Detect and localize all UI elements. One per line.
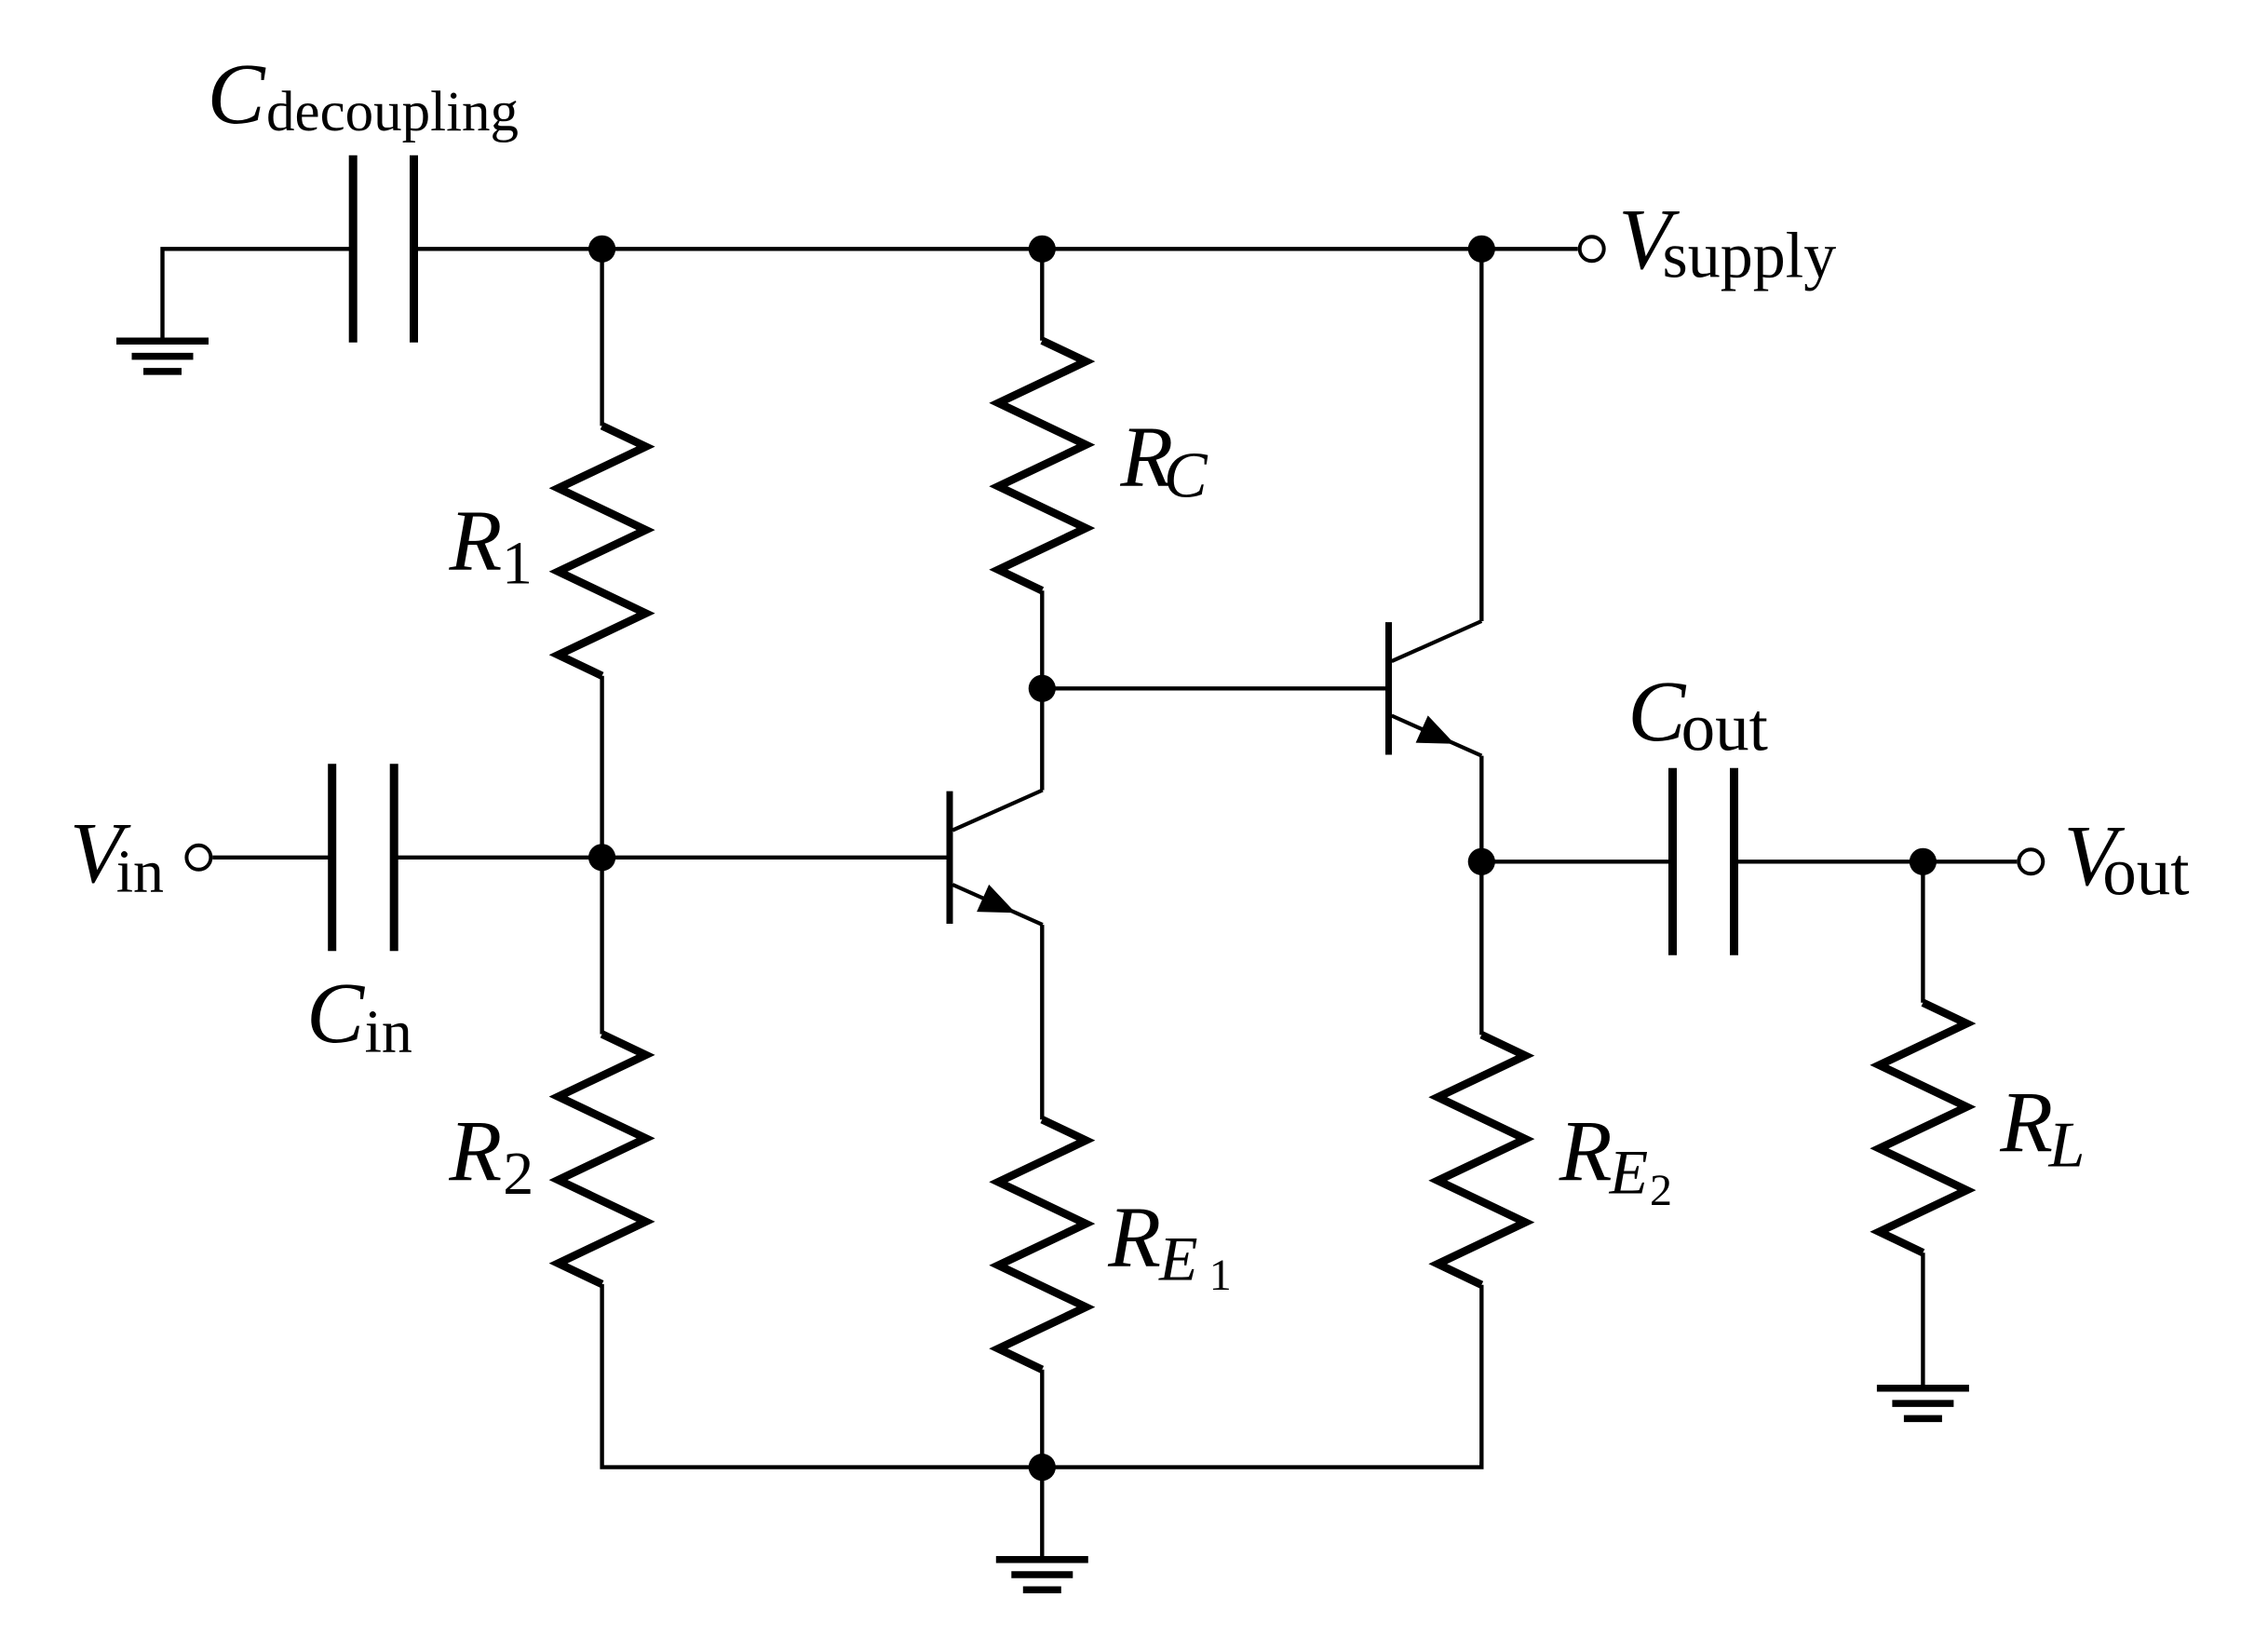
ground R_L — [1877, 1388, 1969, 1419]
wire Q2 collector lead — [1479, 249, 1483, 621]
svg-text:R: R — [1107, 1190, 1161, 1286]
wire R_L to ground — [1921, 1252, 1924, 1385]
transistor Q2 (NPN) — [1389, 621, 1482, 756]
node top rail / R_C — [1029, 236, 1056, 263]
svg-text:C: C — [1627, 664, 1686, 760]
wire R_E2 to bottom rail — [1479, 1285, 1483, 1468]
ground left — [116, 341, 209, 372]
wire rail to R1 — [600, 249, 603, 426]
svg-text:out: out — [1681, 690, 1768, 765]
wire emitter node to R_E2 — [1479, 861, 1483, 1035]
wire emitter node to C_out — [1481, 860, 1672, 863]
node base node Q1 — [588, 844, 615, 871]
wire Q1 emitter lead — [1040, 925, 1044, 1119]
wire top rail right segment — [1042, 247, 1481, 250]
node top rail / R1 — [588, 236, 615, 263]
svg-text:R: R — [1559, 1104, 1613, 1200]
svg-text:E: E — [1609, 1137, 1649, 1208]
wire R2 to bottom rail — [602, 1284, 1043, 1468]
svg-text:C: C — [208, 47, 266, 142]
wire base node to R2 — [600, 858, 603, 1035]
svg-text:out: out — [2102, 834, 2189, 910]
svg-text:in: in — [365, 998, 412, 1066]
resistor R_E1 — [998, 1119, 1086, 1370]
label V_in — [70, 805, 164, 906]
wire bottom rail right segment — [1042, 1462, 1481, 1468]
capacitor C_in — [332, 764, 395, 951]
svg-text:1: 1 — [1209, 1251, 1232, 1300]
wire V_out stub — [1923, 860, 2017, 863]
node bottom rail / ground — [1029, 1454, 1056, 1481]
capacitor C_decoupling — [353, 156, 413, 343]
wire R_E1 to bottom rail — [1040, 1370, 1044, 1468]
label R_1 — [449, 494, 533, 598]
terminal V_out — [2018, 849, 2043, 873]
svg-text:2: 2 — [503, 1140, 533, 1208]
wire supply stub — [1481, 247, 1577, 250]
label R_2 — [448, 1103, 533, 1208]
wire V_in to C_in — [212, 856, 331, 860]
transistor Q1 (NPN) — [950, 791, 1043, 926]
node V_out node — [1910, 848, 1937, 875]
svg-text:L: L — [2048, 1110, 2086, 1182]
wire bottom ground stem — [1040, 1468, 1044, 1557]
svg-text:decoupling: decoupling — [266, 81, 519, 143]
wire C_in to base node — [394, 856, 601, 860]
svg-text:R: R — [1999, 1076, 2053, 1171]
resistor R_C — [998, 341, 1086, 591]
svg-text:C: C — [306, 966, 365, 1062]
wire R1 to base node — [600, 676, 603, 858]
svg-text:R: R — [448, 1103, 502, 1199]
node Q1 collector node — [1029, 675, 1056, 702]
label R_E1 — [1107, 1190, 1232, 1300]
capacitor C_out — [1673, 768, 1735, 955]
wire Q2 emitter lead — [1479, 756, 1483, 862]
wire base node to Q1 base — [602, 856, 950, 860]
wire Q1 collector lead — [1040, 590, 1044, 790]
resistor R2 — [559, 1035, 646, 1285]
ground bottom — [996, 1560, 1088, 1591]
wire decoupling to ground — [163, 249, 354, 338]
resistor R_L — [1879, 1003, 1966, 1253]
wire C_out to V_out node — [1735, 860, 1924, 863]
label V_supply — [1618, 192, 1836, 292]
label V_out — [2064, 808, 2190, 910]
svg-text:R: R — [449, 494, 503, 589]
label R_L — [1999, 1076, 2085, 1182]
label R_E2 — [1559, 1104, 1672, 1216]
label C_in — [306, 966, 412, 1066]
wire top rail mid segment — [602, 247, 1043, 250]
label C_decoupling — [208, 47, 519, 143]
svg-text:supply: supply — [1663, 221, 1837, 292]
terminal V_in — [186, 846, 210, 870]
svg-text:1: 1 — [502, 529, 533, 597]
terminal V_supply — [1580, 237, 1604, 261]
svg-text:C: C — [1164, 440, 1208, 511]
label R_C — [1119, 410, 1208, 511]
node Q2 emitter node — [1468, 848, 1495, 875]
label C_out — [1627, 664, 1767, 765]
wire Q1 collector to Q2 base — [1042, 686, 1388, 690]
node top rail / Q2 collector — [1468, 236, 1495, 263]
wire V_out node to R_L — [1921, 861, 1924, 1002]
resistor R1 — [559, 426, 646, 676]
wire rail to R_C — [1040, 249, 1044, 340]
svg-text:E: E — [1158, 1223, 1198, 1293]
wire top rail left segment — [414, 247, 602, 250]
resistor R_E2 — [1438, 1035, 1525, 1285]
svg-text:in: in — [116, 837, 164, 905]
svg-text:2: 2 — [1650, 1166, 1672, 1215]
